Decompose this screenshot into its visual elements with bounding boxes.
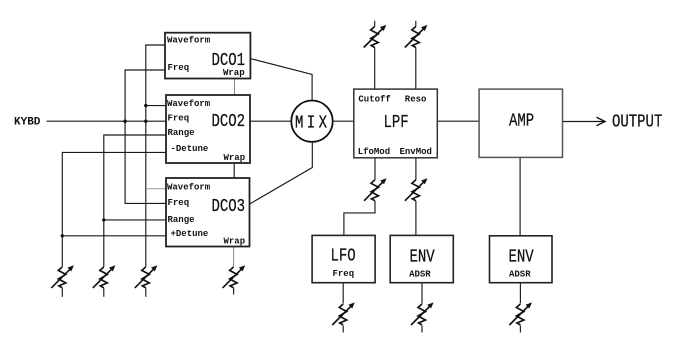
svg-text:DCO3: DCO3 — [212, 195, 246, 216]
svg-text:Freq: Freq — [168, 198, 190, 208]
svg-text:OUTPUT: OUTPUT — [612, 111, 663, 132]
svg-text:Freq: Freq — [168, 114, 190, 124]
svg-text:-Detune: -Detune — [171, 144, 209, 154]
svg-text:Waveform: Waveform — [167, 183, 211, 193]
svg-text:LfoMod: LfoMod — [358, 147, 390, 157]
svg-text:DCO2: DCO2 — [212, 110, 246, 131]
svg-text:ENV: ENV — [410, 246, 435, 267]
svg-text:Reso: Reso — [405, 94, 427, 104]
svg-text:Wrap: Wrap — [224, 237, 246, 247]
svg-text:ADSR: ADSR — [409, 270, 431, 280]
svg-text:Wrap: Wrap — [223, 68, 245, 78]
svg-text:KYBD: KYBD — [14, 116, 41, 128]
svg-text:Range: Range — [168, 128, 195, 138]
svg-text:Freq: Freq — [333, 269, 355, 279]
svg-text:Waveform: Waveform — [167, 36, 211, 46]
svg-text:ENV: ENV — [509, 246, 534, 267]
svg-text:AMP: AMP — [509, 110, 534, 131]
svg-text:EnvMod: EnvMod — [400, 147, 432, 157]
svg-text:LPF: LPF — [384, 111, 409, 132]
svg-text:+Detune: +Detune — [171, 229, 209, 239]
svg-text:LFO: LFO — [331, 245, 356, 266]
svg-text:MIX: MIX — [295, 112, 330, 133]
svg-text:Cutoff: Cutoff — [358, 94, 390, 104]
svg-text:Wrap: Wrap — [224, 153, 246, 163]
svg-text:Range: Range — [168, 215, 195, 225]
svg-text:Waveform: Waveform — [167, 99, 211, 109]
svg-text:ADSR: ADSR — [509, 270, 531, 280]
svg-text:Freq: Freq — [168, 63, 190, 73]
